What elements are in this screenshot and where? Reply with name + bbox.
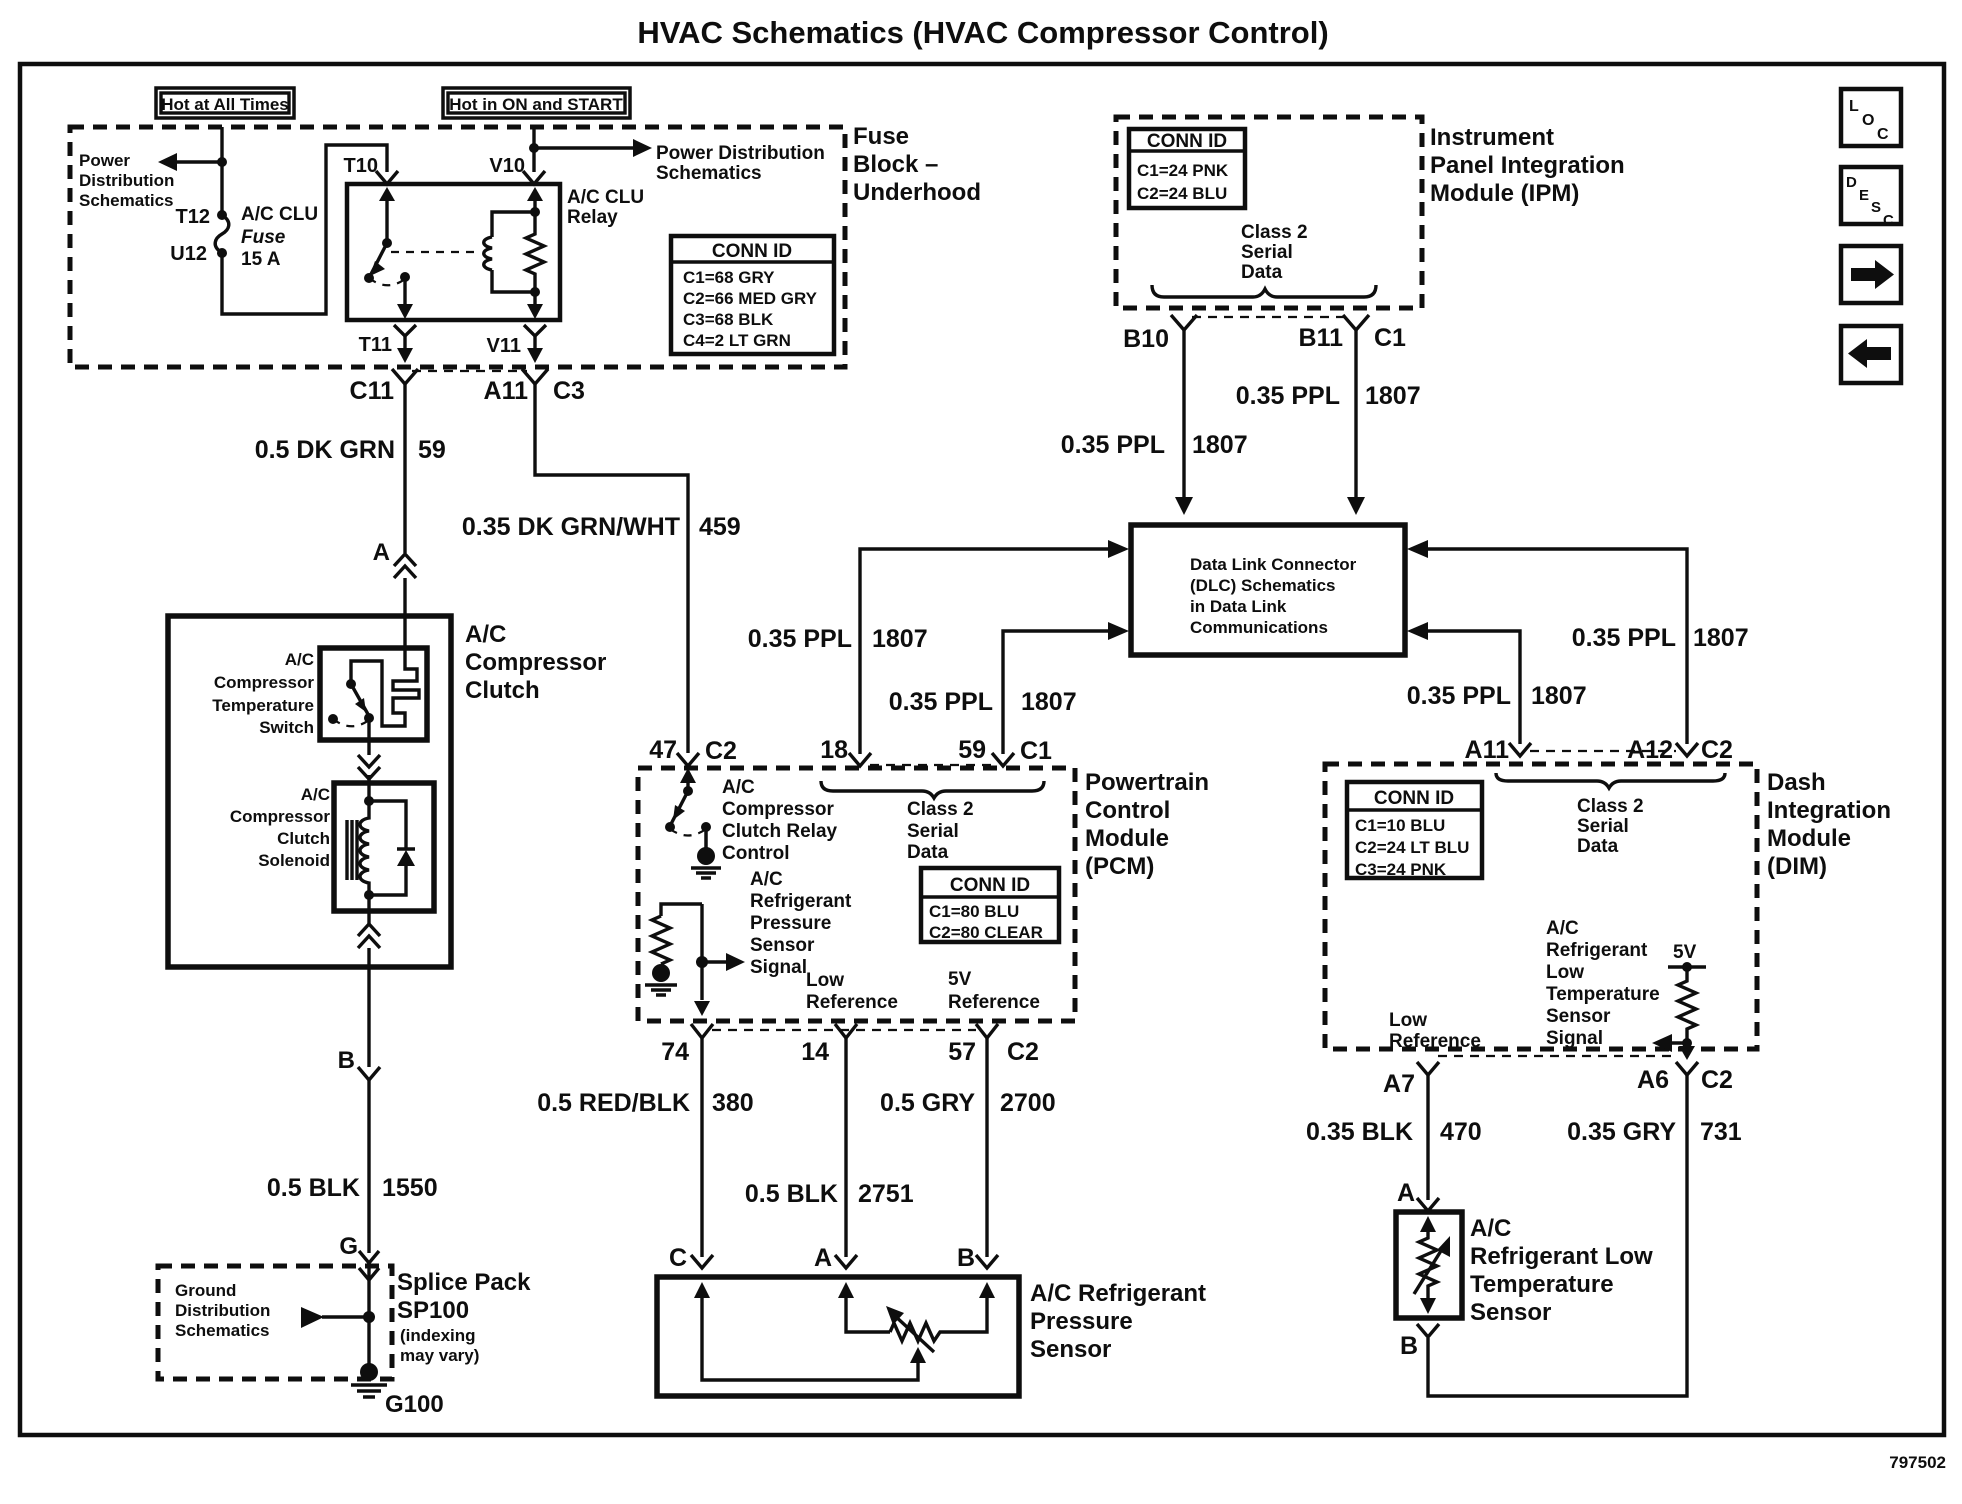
svg-text:Low: Low — [806, 970, 844, 991]
relay switch arm wire — [385, 199, 388, 243]
wire temp switch out — [367, 718, 370, 755]
DIM dashed box — [1325, 764, 1757, 1049]
connector chevron B temp — [1417, 1324, 1439, 1337]
svg-text:0.35 PPL: 0.35 PPL — [889, 688, 993, 716]
node splice junction — [363, 1311, 375, 1323]
arrow relay T11 down — [397, 304, 413, 319]
svg-text:C3: C3 — [553, 377, 585, 405]
wire B to G — [367, 1080, 370, 1253]
PCM dashed box — [638, 768, 1075, 1021]
PCM clutch relay control switch arrow up — [680, 768, 696, 783]
diode triangle — [397, 850, 415, 866]
label box Hot in ON and START — [443, 88, 630, 118]
svg-text:G: G — [339, 1233, 358, 1260]
svg-text:Temperature: Temperature — [212, 696, 314, 715]
svg-text:Compressor: Compressor — [230, 807, 331, 826]
nav button LOC — [1841, 89, 1901, 146]
A/C refrigerant low temperature sensor box — [1396, 1212, 1462, 1318]
svg-text:0.35 PPL: 0.35 PPL — [1236, 382, 1340, 410]
connector dashed line 74-57 — [712, 1029, 976, 1031]
CONN ID table PCM — [921, 868, 1059, 942]
svg-text:1550: 1550 — [382, 1174, 438, 1202]
PCM switch common node — [701, 822, 711, 832]
sensor pin B arrow up — [979, 1282, 995, 1298]
svg-text:Control: Control — [722, 843, 790, 864]
wire PCM pin74 vertical — [700, 904, 703, 1000]
svg-text:Clutch Relay: Clutch Relay — [722, 821, 838, 842]
DIM 5V node dot — [1682, 962, 1692, 972]
svg-text:0.35 DK GRN/WHT: 0.35 DK GRN/WHT — [462, 513, 680, 541]
svg-text:A/C CLU: A/C CLU — [241, 204, 318, 225]
svg-text:A/C: A/C — [1470, 1215, 1511, 1242]
connector chevron 57 — [976, 1024, 998, 1038]
svg-text:D: D — [1846, 174, 1857, 191]
connector chevron C11 — [392, 369, 418, 384]
wire A11 to pin 47 — [535, 384, 688, 753]
connector chevron 14 — [835, 1024, 857, 1038]
svg-text:Data Link Connector: Data Link Connector — [1190, 555, 1357, 574]
wire A6 down — [1428, 1075, 1687, 1396]
temp switch blade arrowhead — [355, 698, 366, 712]
svg-text:1807: 1807 — [1192, 431, 1248, 459]
svg-text:Panel Integration: Panel Integration — [1430, 152, 1625, 179]
svg-text:0.35 PPL: 0.35 PPL — [748, 625, 852, 653]
connector chevron 18 — [849, 753, 871, 766]
relay switch contact node — [364, 273, 374, 283]
wire C11 to compressor clutch — [403, 384, 406, 553]
PCM switch stem — [686, 781, 689, 791]
nav button right arrow — [1841, 246, 1901, 303]
relay common node — [400, 272, 410, 282]
relay switch blade — [369, 243, 387, 278]
DIM signal node — [1682, 1038, 1692, 1048]
label Dash Integration Module (DIM) — [1767, 769, 1891, 880]
A/C refrigerant pressure sensor box — [657, 1277, 1019, 1396]
svg-text:Communications: Communications — [1190, 618, 1328, 637]
arrow pin18 into DLC — [1108, 540, 1129, 558]
DLC box — [1131, 525, 1405, 655]
svg-text:SP100: SP100 — [397, 1297, 469, 1324]
svg-text:Integration: Integration — [1767, 797, 1891, 824]
svg-text:Module: Module — [1767, 825, 1851, 852]
wire signal arrow — [702, 960, 728, 963]
svg-text:C1: C1 — [1020, 737, 1052, 765]
svg-text:A: A — [814, 1244, 832, 1272]
connector chevron V10 — [523, 171, 545, 184]
svg-text:1807: 1807 — [1365, 382, 1421, 410]
sensor pin A arrow up — [838, 1282, 854, 1298]
node T12 feed junction — [217, 157, 227, 167]
node T12 — [217, 210, 227, 220]
svg-text:O: O — [1862, 112, 1874, 129]
wire hot feed down — [220, 127, 223, 215]
svg-text:18: 18 — [820, 736, 848, 764]
connector chevron T11 — [394, 325, 416, 336]
svg-text:380: 380 — [712, 1089, 754, 1117]
connector chevron A11 — [522, 369, 548, 384]
arrow signal right — [726, 953, 745, 971]
connector chevron V11 — [524, 325, 546, 336]
IPM dashed box — [1116, 117, 1422, 308]
wire relay coil feed — [533, 199, 536, 212]
wire G to ground — [367, 1263, 370, 1372]
svg-text:C1: C1 — [1374, 324, 1406, 352]
svg-text:C2: C2 — [1701, 1066, 1733, 1094]
inline connector A double chevron — [394, 554, 416, 578]
nav button left arrow — [1841, 326, 1901, 383]
connector chevron B sensor — [976, 1255, 998, 1268]
arrow B10 into DLC — [1175, 497, 1193, 515]
connector chevron 59 — [992, 753, 1014, 766]
svg-text:CONN ID: CONN ID — [950, 875, 1030, 896]
svg-text:A: A — [1397, 1179, 1415, 1207]
PCM switch dashed arc — [670, 829, 706, 836]
svg-text:Serial: Serial — [1577, 816, 1629, 837]
inline double chevron down — [358, 755, 380, 779]
PCM switch contact node left — [665, 822, 675, 832]
relay switch dashed arc — [369, 278, 405, 285]
arrow to power distribution right — [633, 139, 652, 157]
relay resistor — [526, 212, 544, 292]
wire pin74 to sensor C — [700, 1038, 703, 1257]
label A/C Refrigerant Low Temperature Sensor Signal DIM — [1546, 918, 1660, 1049]
sensor wiper diagonal arrow — [894, 1315, 934, 1352]
svg-text:59: 59 — [418, 436, 446, 464]
wire T11 stub — [403, 336, 406, 350]
svg-text:0.5 BLK: 0.5 BLK — [267, 1174, 360, 1202]
svg-text:Power Distribution: Power Distribution — [656, 143, 825, 164]
arrow A11 into DLC — [1407, 622, 1428, 640]
label Instrument Panel Integration Module (IPM) — [1430, 124, 1625, 207]
svg-text:Schematics: Schematics — [656, 163, 762, 184]
svg-text:CONN ID: CONN ID — [1147, 131, 1227, 152]
brace PCM class 2 — [821, 781, 1044, 798]
arrow relay V10 up — [527, 187, 543, 201]
brace DIM class 2 — [1496, 773, 1725, 788]
svg-text:Refrigerant: Refrigerant — [1546, 940, 1648, 961]
svg-text:Clutch: Clutch — [277, 829, 330, 848]
sensor wiper diagonal arrowhead — [886, 1306, 904, 1325]
svg-text:Refrigerant: Refrigerant — [750, 891, 852, 912]
svg-text:in Data Link: in Data Link — [1190, 597, 1287, 616]
PCM switch blade — [670, 791, 688, 826]
sensor internal wire C — [702, 1294, 918, 1380]
svg-text:Pressure: Pressure — [750, 913, 831, 934]
svg-text:Data: Data — [1241, 262, 1283, 283]
svg-text:Distribution: Distribution — [175, 1301, 270, 1320]
svg-text:0.5 BLK: 0.5 BLK — [745, 1180, 838, 1208]
svg-text:2700: 2700 — [1000, 1089, 1056, 1117]
svg-text:A/C: A/C — [301, 785, 330, 804]
svg-text:Instrument: Instrument — [1430, 124, 1554, 151]
label Splice Pack SP100 — [397, 1269, 531, 1365]
arrow V11 border — [527, 348, 543, 363]
PCM pressure sensor resistor — [652, 916, 670, 964]
wire A to clutch box — [403, 578, 406, 650]
svg-text:A11: A11 — [484, 377, 529, 405]
svg-text:0.35 BLK: 0.35 BLK — [1306, 1118, 1413, 1146]
connector chevron B11 — [1343, 315, 1369, 330]
svg-text:B10: B10 — [1123, 325, 1169, 353]
svg-text:Compressor: Compressor — [214, 673, 315, 692]
label A/C Compressor Clutch Solenoid — [230, 785, 331, 870]
svg-text:Solenoid: Solenoid — [258, 851, 330, 870]
label Ground Distribution Schematics — [175, 1281, 270, 1340]
solenoid top node — [364, 796, 374, 806]
svg-text:Sensor: Sensor — [750, 935, 815, 956]
label Class 2 Serial Data PCM — [907, 799, 974, 863]
wire to T12 feed — [176, 160, 222, 163]
node signal junction — [696, 956, 708, 968]
svg-text:B: B — [957, 1244, 975, 1272]
label Class 2 Serial Data DIM — [1577, 796, 1644, 857]
wire to power distribution right — [534, 146, 634, 149]
svg-text:A7: A7 — [1383, 1070, 1415, 1098]
label A/C Refrigerant Pressure Sensor — [1030, 1280, 1206, 1363]
svg-text:C1=80 BLU: C1=80 BLU — [929, 902, 1019, 921]
svg-text:Control: Control — [1085, 797, 1170, 824]
wire V10 feed — [532, 127, 535, 172]
DIM 5V node bar — [1668, 965, 1706, 968]
svg-text:Class 2: Class 2 — [1241, 222, 1308, 243]
label A/C CLU Fuse 15 A — [241, 204, 318, 270]
wire fuse to relay T10 — [222, 145, 387, 314]
temperature switch heater meander — [351, 650, 419, 726]
svg-text:C2=24 LT BLU: C2=24 LT BLU — [1355, 838, 1469, 857]
A/C compressor temperature switch box — [320, 648, 427, 740]
svg-text:T10: T10 — [344, 155, 378, 177]
svg-text:Temperature: Temperature — [1470, 1271, 1614, 1298]
arrow pin74 down — [694, 1001, 710, 1016]
thermistor diagonal arrowhead — [1437, 1236, 1450, 1257]
svg-text:14: 14 — [801, 1038, 829, 1066]
relay switch blade arrowhead — [370, 261, 385, 276]
connector chevron 74 — [691, 1024, 713, 1038]
connector dashed line 18-59 — [870, 764, 992, 766]
svg-text:Sensor: Sensor — [1030, 1336, 1111, 1363]
brace IPM class 2 — [1152, 285, 1376, 297]
svg-text:Class 2: Class 2 — [1577, 796, 1644, 817]
svg-text:L: L — [1849, 98, 1859, 115]
inline double chevron up — [358, 924, 380, 948]
svg-text:C11: C11 — [350, 377, 395, 405]
label A/C Compressor Clutch — [465, 621, 606, 704]
svg-text:C2=24 BLU: C2=24 BLU — [1137, 184, 1227, 203]
A/C compressor clutch box — [168, 616, 451, 967]
temp switch contact node left — [328, 714, 338, 724]
sensor internal wire A — [846, 1294, 890, 1332]
wire relay coil down — [533, 292, 536, 307]
sensor internal wire B — [944, 1294, 987, 1332]
temp switch common node — [364, 713, 374, 723]
connector dashed line A11-A12 — [1530, 750, 1676, 752]
connector dashed line C11-A11 — [412, 370, 527, 372]
temp switch dashed arc — [333, 719, 369, 726]
svg-text:Hot in ON and START: Hot in ON and START — [449, 95, 623, 114]
wire PCM pin59 to DLC — [1003, 631, 1110, 754]
PCM pressure sensor resistor wire top — [661, 904, 702, 916]
svg-text:A6: A6 — [1637, 1066, 1669, 1094]
arrow pin59 into DLC — [1108, 622, 1129, 640]
svg-text:G100: G100 — [385, 1391, 444, 1418]
svg-text:V11: V11 — [487, 335, 521, 357]
connector dashed line A7-A6 — [1438, 1055, 1676, 1057]
svg-text:A/C: A/C — [1546, 918, 1579, 939]
svg-text:A11: A11 — [1465, 736, 1510, 764]
svg-text:Hot at All Times: Hot at All Times — [161, 95, 289, 114]
label box Hot at All Times — [156, 88, 294, 118]
svg-text:Data: Data — [1577, 836, 1619, 857]
svg-text:Schematics: Schematics — [79, 191, 174, 210]
connector chevron C — [691, 1255, 713, 1268]
solenoid bottom node — [364, 890, 374, 900]
svg-text:Reference: Reference — [1389, 1031, 1481, 1052]
label A/C Refrigerant Low Temperature Sensor — [1470, 1215, 1653, 1326]
connector chevron A11 DIM — [1509, 743, 1531, 756]
label A/C Refrigerant Pressure Sensor Signal — [750, 869, 852, 978]
nav button DESC — [1841, 167, 1901, 229]
svg-text:S: S — [1871, 199, 1881, 216]
wire solenoid out — [367, 895, 370, 924]
node relay coil top — [530, 207, 540, 217]
label A/C Compressor Clutch Relay Control — [722, 777, 838, 864]
splice arrow — [301, 1307, 324, 1328]
thermistor diagonal arrow — [1414, 1246, 1444, 1294]
node V10 junction — [529, 143, 539, 153]
connector chevron A12 — [1676, 743, 1698, 756]
A/C compressor clutch solenoid box — [334, 783, 434, 911]
svg-text:C2: C2 — [705, 737, 737, 765]
svg-text:1807: 1807 — [1021, 688, 1077, 716]
svg-text:Powertrain: Powertrain — [1085, 769, 1209, 796]
connector dashed line B10-B11 — [1192, 316, 1348, 318]
solenoid coil — [360, 801, 369, 895]
svg-text:T11: T11 — [359, 334, 392, 356]
svg-text:57: 57 — [948, 1038, 976, 1066]
wire pin57 to sensor B — [985, 1038, 988, 1257]
svg-text:V10: V10 — [489, 155, 525, 177]
wire into solenoid — [367, 775, 370, 801]
diode bar — [397, 847, 415, 850]
arrow relay V11 down — [527, 304, 543, 319]
svg-text:Fuse: Fuse — [241, 227, 286, 248]
wire PCM pin18 to DLC — [860, 549, 1110, 754]
svg-text:0.5 GRY: 0.5 GRY — [880, 1089, 975, 1117]
svg-text:Underhood: Underhood — [853, 179, 981, 206]
CONN ID table fuse block — [671, 236, 834, 354]
arrow T11 border — [397, 348, 413, 363]
node U12 — [217, 248, 227, 258]
svg-text:Switch: Switch — [259, 718, 314, 737]
PCM switch ground stem — [704, 827, 708, 850]
wire V11 stub — [533, 336, 536, 350]
connector chevron G — [359, 1251, 379, 1263]
relay coil — [484, 237, 492, 270]
svg-text:Fuse: Fuse — [853, 123, 909, 150]
svg-text:Sensor: Sensor — [1546, 1006, 1611, 1027]
svg-text:C1=10 BLU: C1=10 BLU — [1355, 816, 1445, 835]
svg-text:Pressure: Pressure — [1030, 1308, 1133, 1335]
svg-text:Module (IPM): Module (IPM) — [1430, 180, 1579, 207]
svg-text:B11: B11 — [1299, 324, 1344, 352]
svg-text:1807: 1807 — [1693, 624, 1749, 652]
svg-text:Module: Module — [1085, 825, 1169, 852]
svg-text:C1=24 PNK: C1=24 PNK — [1137, 161, 1229, 180]
thermistor arrow up — [1420, 1216, 1436, 1232]
wire to connector B — [367, 948, 370, 1067]
sensor potentiometer zigzag — [890, 1323, 944, 1341]
svg-text:459: 459 — [699, 513, 741, 541]
svg-text:731: 731 — [1700, 1118, 1742, 1146]
svg-text:(indexing: (indexing — [400, 1326, 476, 1345]
svg-text:C2=66 MED GRY: C2=66 MED GRY — [683, 289, 818, 308]
svg-text:Ground: Ground — [175, 1281, 236, 1300]
wire DIM A11 to DLC — [1426, 631, 1520, 744]
svg-text:HVAC Schematics (HVAC Compress: HVAC Schematics (HVAC Compressor Control… — [637, 15, 1328, 50]
svg-text:T12: T12 — [176, 206, 210, 228]
svg-text:Distribution: Distribution — [79, 171, 174, 190]
wire B11 to DLC — [1354, 330, 1357, 498]
svg-text:Clutch: Clutch — [465, 677, 540, 704]
fuse block underhood dashed box — [70, 127, 845, 367]
splice pack dashed box — [158, 1266, 392, 1379]
PCM switch blade arrowhead — [673, 805, 685, 820]
svg-text:Serial: Serial — [1241, 242, 1293, 263]
PCM switch pivot node — [683, 786, 693, 796]
svg-text:Schematics: Schematics — [175, 1321, 270, 1340]
svg-text:Low: Low — [1546, 962, 1584, 983]
svg-text:Sensor: Sensor — [1470, 1299, 1551, 1326]
svg-text:A/C: A/C — [285, 650, 314, 669]
svg-text:A: A — [373, 539, 390, 566]
arrow A12 into DLC — [1407, 540, 1428, 558]
svg-text:0.35 PPL: 0.35 PPL — [1407, 682, 1511, 710]
ground G100 — [351, 1363, 387, 1397]
svg-text:C: C — [669, 1244, 687, 1272]
label Fuse Block Underhood — [853, 123, 981, 206]
relay A/C CLU box — [347, 184, 560, 320]
label Powertrain Control Module (PCM) — [1085, 769, 1209, 880]
svg-text:47: 47 — [649, 736, 677, 764]
DIM pullup resistor — [1678, 967, 1696, 1043]
connector chevron A sensor — [835, 1255, 857, 1268]
DIM signal arrow left — [1652, 1034, 1672, 1052]
PCM resistor ground — [645, 964, 677, 995]
PCM switch ground — [691, 847, 721, 878]
svg-text:Compressor: Compressor — [722, 799, 835, 820]
connector chevron A7 — [1417, 1062, 1439, 1075]
solenoid diode branch — [369, 801, 406, 895]
DIM wire to A6 — [1685, 1043, 1688, 1050]
svg-text:470: 470 — [1440, 1118, 1482, 1146]
relay switch arm arrow up — [379, 187, 395, 201]
arrow to power distribution left — [158, 153, 177, 171]
svg-text:C: C — [1877, 126, 1889, 143]
svg-text:C3=24 PNK: C3=24 PNK — [1355, 860, 1447, 879]
label Power Distribution Schematics (left) — [79, 151, 174, 210]
connector chevron A temp — [1417, 1198, 1439, 1211]
solenoid core lines — [347, 820, 357, 880]
svg-text:A/C CLU: A/C CLU — [567, 187, 644, 208]
CONN ID table IPM — [1129, 129, 1245, 208]
svg-text:(DLC) Schematics: (DLC) Schematics — [1190, 576, 1335, 595]
node relay coil bottom — [530, 287, 540, 297]
label A/C CLU Relay — [567, 187, 644, 228]
svg-text:0.5 DK GRN: 0.5 DK GRN — [255, 436, 395, 464]
svg-text:C2=80 CLEAR: C2=80 CLEAR — [929, 923, 1043, 942]
svg-text:Temperature: Temperature — [1546, 984, 1660, 1005]
connector chevron 47 — [677, 753, 699, 766]
